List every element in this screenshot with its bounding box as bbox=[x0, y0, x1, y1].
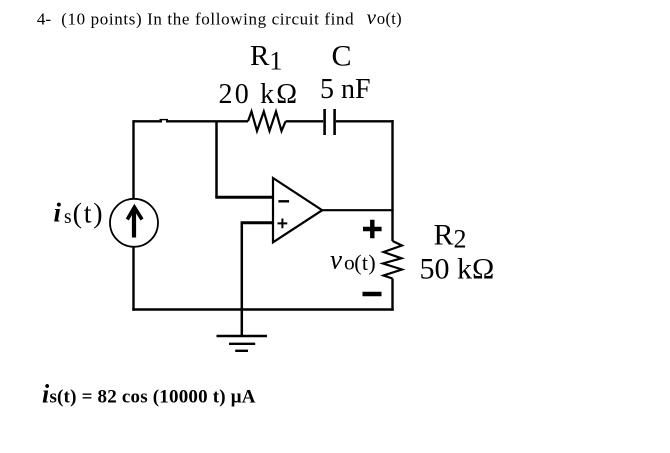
capacitor C plates bbox=[323, 109, 326, 135]
svg-text:o(t): o(t) bbox=[377, 9, 402, 28]
svg-text:(t): (t) bbox=[73, 199, 105, 230]
svg-text:(10 points) In the following c: (10 points) In the following circuit fin… bbox=[61, 9, 354, 28]
svg-text:4-: 4- bbox=[37, 9, 52, 28]
wire: inverting input horizontal to op-amp bbox=[215, 196, 273, 199]
svg-text:s: s bbox=[64, 207, 72, 228]
svg-text:(t): (t) bbox=[354, 250, 376, 275]
wire: non-inverting input horizontal bbox=[241, 221, 273, 224]
wire: left vertical lower (source to bottom wire) bbox=[132, 247, 134, 311]
svg-text:C: C bbox=[332, 39, 352, 72]
wire: bottom horizontal bbox=[132, 308, 393, 310]
svg-text:50 kΩ: 50 kΩ bbox=[420, 253, 495, 286]
wire: non-inverting input vertical to ground bbox=[241, 223, 244, 336]
svg-text:R2: R2 bbox=[434, 218, 467, 253]
current source arrow bbox=[132, 208, 136, 238]
svg-text:o: o bbox=[344, 251, 355, 275]
svg-text:i: i bbox=[54, 198, 62, 228]
resistor R2 zigzag bbox=[383, 241, 402, 279]
wire: top horizontal segment with scan tick bbox=[166, 120, 248, 122]
wire: right vertical lower bbox=[391, 279, 393, 311]
wire tick artifact bbox=[160, 119, 169, 121]
svg-text:20 kΩ: 20 kΩ bbox=[219, 79, 300, 110]
wire: C to top right corner bbox=[336, 120, 394, 122]
ground symbol bbox=[217, 335, 268, 338]
current source IS1 circle bbox=[110, 199, 158, 247]
wire: inverting input vertical from top wire bbox=[215, 121, 218, 197]
op-amp minus input marker bbox=[278, 200, 289, 202]
wire: op-amp output bbox=[322, 209, 394, 211]
polarity minus sign for vo(t) bbox=[363, 292, 382, 296]
svg-text:v: v bbox=[367, 5, 377, 29]
svg-text:v: v bbox=[330, 245, 342, 275]
resistor R1 zigzag bbox=[248, 112, 286, 132]
wire: top left horizontal segment bbox=[134, 120, 163, 122]
wire: left vertical upper (top wire to source) bbox=[132, 120, 134, 199]
polarity plus sign for vo(t) bbox=[363, 220, 382, 239]
op-amp plus input marker bbox=[278, 219, 288, 229]
wire: between R1 and C bbox=[286, 120, 324, 122]
wire: right vertical upper bbox=[391, 120, 393, 241]
svg-text:5 nF: 5 nF bbox=[320, 74, 371, 105]
op-amp U1 triangle bbox=[273, 178, 322, 242]
